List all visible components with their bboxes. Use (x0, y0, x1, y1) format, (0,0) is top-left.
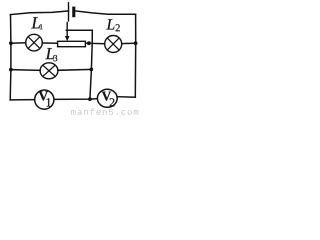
junction dot left-row2 (9, 41, 13, 45)
lamp L2 (105, 36, 122, 53)
wire row3 right (L3 to mid vertical) (58, 68, 92, 71)
wire top-left (corner to battery) (11, 11, 69, 15)
lamp L1 (26, 34, 43, 51)
junction dot right-row2 (134, 41, 138, 45)
wire row2 left (to lamp L1) (11, 42, 26, 44)
rheostat R body (58, 41, 86, 46)
wire bottom-right (V2 to corner) (117, 96, 135, 99)
wire row3 left (to lamp L3) (11, 69, 40, 72)
label L2 (106, 19, 119, 31)
wire bottom-mid (V1 to V2) (54, 98, 98, 101)
junction dot row2-mid (87, 41, 91, 45)
label L1 (31, 17, 42, 29)
voltmeter V1 (35, 90, 54, 109)
wire rheostat slider horizontal (66, 29, 92, 31)
junction dot row3-mid (89, 68, 93, 72)
wire bottom-left (corner to V1) (10, 99, 35, 101)
watermark manfen5.com (71, 108, 138, 115)
junction dot bottom-mid (88, 97, 92, 101)
wire left vertical (9, 15, 12, 100)
wire top-right (battery to corner) (75, 11, 136, 14)
wire row2 right (L2 to right wire) (122, 42, 136, 44)
battery (69, 2, 74, 22)
junction dot left-row3 (9, 68, 13, 72)
wire right vertical (134, 14, 136, 97)
rheostat slider arrow (65, 22, 70, 41)
voltmeter V2 (97, 89, 117, 107)
label L3 (45, 48, 57, 61)
wire row2 (L1 to rheostat) (42, 42, 57, 44)
wire mid vertical (slider net down to bottom) (90, 30, 92, 99)
lamp L3 (40, 63, 58, 79)
wire row2 (rheostat to L2) (86, 42, 105, 45)
